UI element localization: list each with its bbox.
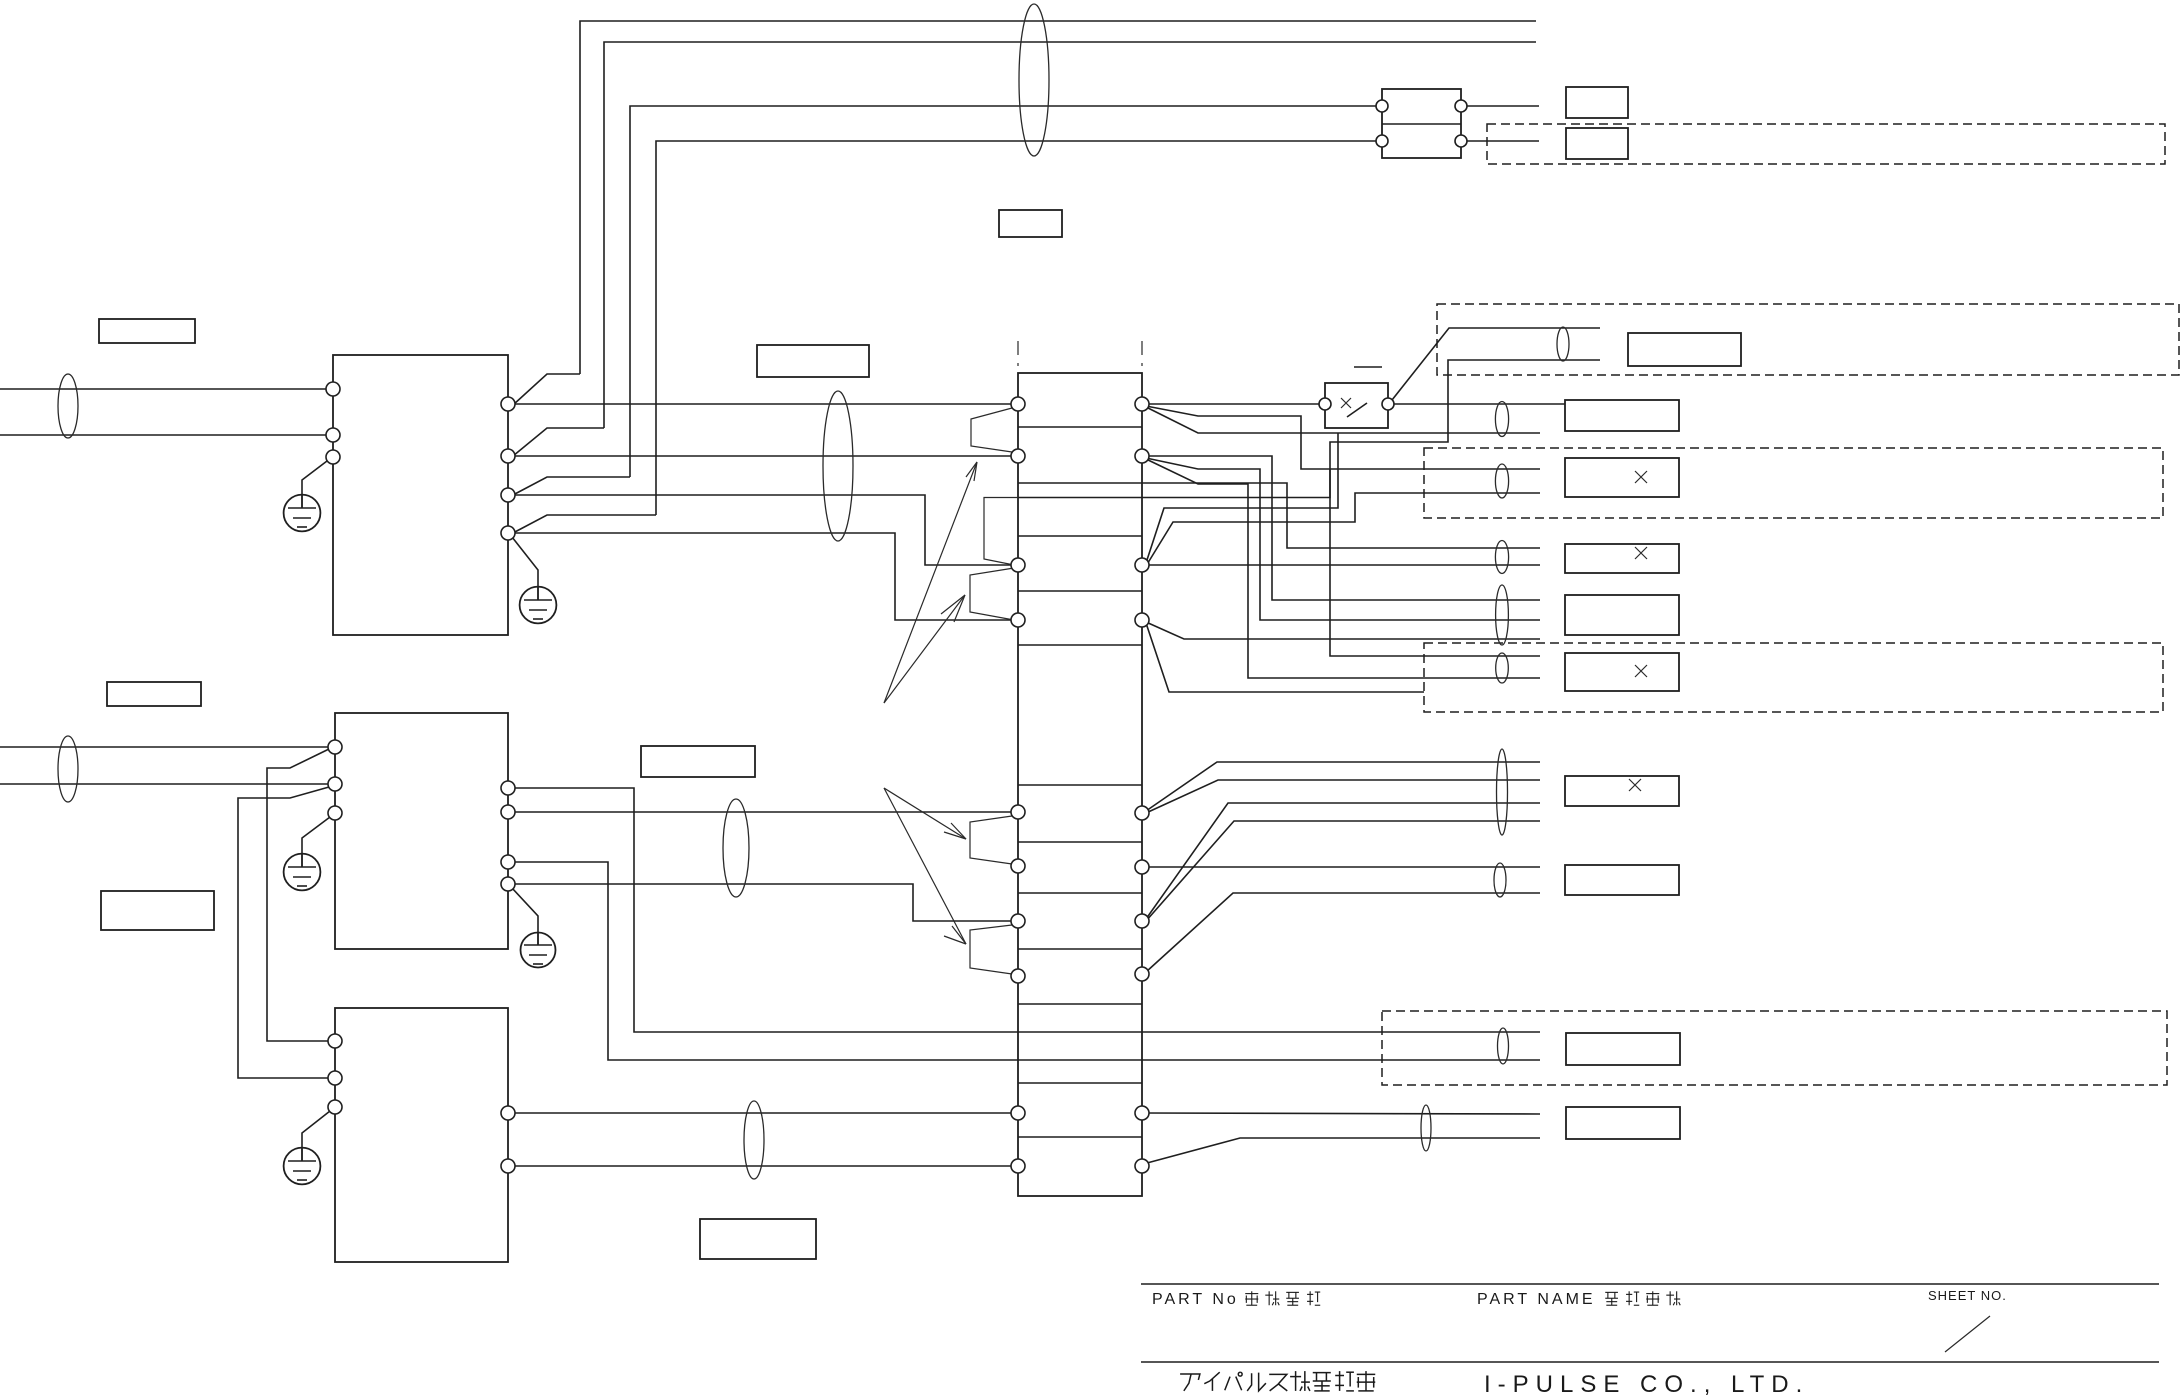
pin TB2-2 xyxy=(1376,135,1388,147)
pin X1-L9 xyxy=(1011,1106,1025,1120)
connector box CR-D2 xyxy=(1628,333,1741,366)
pin X1-R9 xyxy=(1135,1106,1149,1120)
cable ellipse row2 xyxy=(1495,464,1508,498)
wire U2 pin1 down to U3 xyxy=(267,749,335,1041)
strip divider 3 xyxy=(1018,535,1142,537)
cable ellipse CE2 (U1 input) xyxy=(58,374,78,438)
dashed enclosure D2 xyxy=(1437,304,2179,375)
pin TB2-3 xyxy=(1455,100,1467,112)
pin U2-R2 xyxy=(501,805,515,819)
cable ellipse CE6 (U3 output) xyxy=(744,1101,764,1179)
dashed enclosure D8 (row8) xyxy=(1382,1011,2167,1085)
pin X1-L7 xyxy=(1011,914,1025,928)
wire U1 input L2 xyxy=(0,434,333,436)
wire W4 to terminal block TB2 xyxy=(513,141,1382,533)
pin X1-R7 xyxy=(1135,914,1149,928)
pin X1-L5 xyxy=(1011,805,1025,819)
wire row1 top (switch to CR1) xyxy=(1394,403,1565,405)
label box LB5 (mid) xyxy=(641,746,755,777)
pin U2-L3 xyxy=(328,806,342,820)
label box LB4 (mid) xyxy=(757,345,869,377)
pin X1-R1 xyxy=(1135,397,1149,411)
connector box CR5 with x xyxy=(1565,653,1679,691)
pin U2-R4 xyxy=(501,877,515,891)
wire U2-A to row8 (crosses strip) xyxy=(508,788,1540,1032)
cable ellipse row3 xyxy=(1495,541,1508,574)
pin U1-R3 xyxy=(501,488,515,502)
pin X1-L3 xyxy=(1011,558,1025,572)
svg-text:I-PULSE CO., LTD.: I-PULSE CO., LTD. xyxy=(1484,1371,1809,1396)
strip continuation stub left xyxy=(1017,341,1019,366)
strip divider 2 xyxy=(1018,482,1142,484)
pin TB2-4 xyxy=(1455,135,1467,147)
wire U3-R1 to strip xyxy=(508,1112,1018,1114)
ground G4 (U2 pin D) xyxy=(512,888,556,968)
strip divider 11 xyxy=(1018,1082,1142,1084)
strip divider 10 xyxy=(1018,1003,1142,1005)
strip divider 7 xyxy=(1018,841,1142,843)
company text JP xyxy=(1180,1371,1375,1391)
dashed enclosure D5 (row5) xyxy=(1424,643,2163,712)
strip divider 6 xyxy=(1018,784,1142,786)
connector box CR3 with x xyxy=(1565,544,1679,573)
cable ellipse CE1 (top bundle) xyxy=(1019,4,1049,156)
label box LB1 xyxy=(99,319,195,343)
shield bracket SH2b xyxy=(970,568,1014,620)
pin X1-L6 xyxy=(1011,859,1025,873)
pin U2-R3 xyxy=(501,855,515,869)
strip divider 8 xyxy=(1018,892,1142,894)
wire to D2 upper xyxy=(1392,328,1600,400)
ground G1 (U1 left) xyxy=(284,461,327,531)
pin U2-L1 xyxy=(328,740,342,754)
wire fan pin5 to row6 w2 xyxy=(1146,780,1540,813)
pin X1-L2 xyxy=(1011,449,1025,463)
wire fan pin10 to row9 w2 xyxy=(1147,1138,1540,1163)
wire TB2 out 1 xyxy=(1461,105,1539,107)
pin X1-R4 xyxy=(1135,613,1149,627)
pin X1-L8 xyxy=(1011,969,1025,983)
dashed enclosure D1 xyxy=(1487,124,2165,164)
pin U3-R2 xyxy=(501,1159,515,1173)
pin U2-R1 xyxy=(501,781,515,795)
pin X1-R5 xyxy=(1135,806,1149,820)
wire fan pin7 to row6 w3 xyxy=(1146,803,1540,919)
terminal strip X1 xyxy=(1018,373,1142,1196)
switch S1 xyxy=(1319,367,1394,428)
pin X1-R10 xyxy=(1135,1159,1149,1173)
wire U2-B to strip xyxy=(508,811,1018,813)
pin U1-L1 xyxy=(326,382,340,396)
pin U3-L3 xyxy=(328,1100,342,1114)
pin U1-R2 xyxy=(501,449,515,463)
leader arrow A3 xyxy=(884,788,966,839)
wire U2-C to row8 (crosses strip) xyxy=(508,862,1540,1060)
connector box CR7 xyxy=(1565,865,1679,895)
wire U2 input L2 xyxy=(0,783,335,785)
leader arrow A1 xyxy=(884,462,977,703)
ground G5 (U3 left) xyxy=(284,1111,330,1184)
shield bracket SH1 xyxy=(971,408,1012,452)
pin X1-L4 xyxy=(1011,613,1025,627)
label box LB0 (top middle) xyxy=(999,210,1062,237)
block U1 (upper left unit) xyxy=(333,355,508,635)
strip divider 1 xyxy=(1018,426,1142,428)
pin X1-R8 xyxy=(1135,967,1149,981)
cable ellipse row1 xyxy=(1495,402,1508,437)
cable ellipse CE5 (U2 output) xyxy=(723,799,749,897)
wire U1 pin3 to strip xyxy=(508,495,1018,565)
strip continuation stub right xyxy=(1141,341,1143,366)
label box LB6 (bottom mid) xyxy=(700,1219,816,1259)
wire U1 input L1 xyxy=(0,388,333,390)
wire W2 top bundle line 2 xyxy=(513,42,1536,456)
connector box CR4 xyxy=(1565,595,1679,635)
wire pin6 to row7 w1 xyxy=(1142,866,1540,868)
wire TB2 out 2 xyxy=(1461,140,1539,142)
leader arrow A2 xyxy=(884,595,965,703)
wire fan pin2-b to row4 w2 xyxy=(1146,458,1540,620)
block U3 (lower left unit) xyxy=(335,1008,508,1262)
wire through divider to row3 top xyxy=(1142,483,1540,548)
pin X1-R3 xyxy=(1135,558,1149,572)
wire U1 pin2 to strip xyxy=(508,455,1018,457)
title block top rule xyxy=(1141,1283,2159,1285)
shield bracket SH2a xyxy=(984,498,1018,566)
label box LB2 xyxy=(107,682,201,706)
strip divider 4 xyxy=(1018,590,1142,592)
pin TB2-1 xyxy=(1376,100,1388,112)
svg-text:SHEET NO.: SHEET NO. xyxy=(1928,1288,2007,1303)
svg-text:PART No: PART No xyxy=(1152,1291,1239,1308)
wire fan pin4-a to row4 w3 xyxy=(1146,622,1540,639)
pin U3-L1 xyxy=(328,1034,342,1048)
pin X1-R2 xyxy=(1135,449,1149,463)
wire fan pin3-b to row2 bottom xyxy=(1146,493,1540,566)
wire U1 pin4 to strip xyxy=(508,533,1018,620)
wire to D2 lower (through from SH2) xyxy=(1018,360,1600,498)
cable ellipse row4 xyxy=(1496,585,1509,645)
pin U3-L2 xyxy=(328,1071,342,1085)
wire fan pin7 to row6 w4 xyxy=(1146,821,1540,921)
wire pin9 to row9 w1 xyxy=(1142,1113,1540,1114)
wire fan pin4-b to row5 w2 xyxy=(1146,623,1424,692)
strip divider 5 xyxy=(1018,644,1142,646)
wire W3 to terminal block TB2 xyxy=(513,106,1382,495)
wire fan pin5 to row6 w1 xyxy=(1146,762,1540,811)
wire row1 top (strip pin1 to switch) xyxy=(1142,403,1325,405)
cable ellipse row7 xyxy=(1494,863,1506,897)
wire U2 input L1 xyxy=(0,746,335,748)
wire U1 pin1 to strip xyxy=(508,403,1018,405)
pin U1-R4 xyxy=(501,526,515,540)
svg-text:PART NAME: PART NAME xyxy=(1477,1291,1596,1308)
cable ellipse CE3 (U1 output) xyxy=(823,391,853,541)
connector box CR9 xyxy=(1566,1107,1680,1139)
pin X1-L10 xyxy=(1011,1159,1025,1173)
pin U1-L3 xyxy=(326,450,340,464)
connector box CR2 with x xyxy=(1565,458,1679,497)
pin X1-R6 xyxy=(1135,860,1149,874)
shield bracket SH3 xyxy=(970,816,1012,864)
wire U2-D to strip xyxy=(508,884,1018,921)
pin X1-L1 xyxy=(1011,397,1025,411)
pin U3-R1 xyxy=(501,1106,515,1120)
block U2 (middle left unit) xyxy=(335,713,508,949)
terminal block TB2 (top right, 2 rows) xyxy=(1382,89,1461,158)
wire riser pin3-a joins row1 bottom xyxy=(1146,433,1338,563)
wire fan pin1-c row1 bottom xyxy=(1146,407,1540,433)
ground G2 (U1 pin4) xyxy=(512,537,556,623)
wire W1 top bundle line 1 xyxy=(513,21,1536,405)
wire U2 pin2 down to U3 xyxy=(238,787,335,1078)
connector label box CR0b xyxy=(1566,128,1628,159)
cable ellipse CE7 (D2) xyxy=(1557,327,1569,361)
pin U1-R1 xyxy=(501,397,515,411)
pin U2-L2 xyxy=(328,777,342,791)
connector box CR6 with x xyxy=(1565,776,1679,806)
ground G3 (U2 left) xyxy=(284,817,330,890)
cable ellipse row5 xyxy=(1496,653,1509,683)
cable ellipse CE4 (U2 input) xyxy=(58,736,78,802)
leader arrow A4 xyxy=(884,788,966,944)
cable ellipse row6 xyxy=(1497,749,1508,835)
wire fan pin8 to row7 w2 xyxy=(1146,893,1540,972)
strip divider 12 xyxy=(1018,1136,1142,1138)
wire fan pin1-b to row2 top xyxy=(1146,406,1540,469)
strip divider 9 xyxy=(1018,948,1142,950)
pin U1-L2 xyxy=(326,428,340,442)
title block bottom rule xyxy=(1141,1361,2159,1363)
connector box CR1 xyxy=(1565,400,1679,431)
shield bracket SH4 xyxy=(970,925,1012,974)
dashed enclosure D3 (row2) xyxy=(1424,448,2163,518)
label box LB3 xyxy=(101,891,214,930)
connector box CR8 xyxy=(1566,1033,1680,1065)
cable ellipse row8 xyxy=(1498,1028,1509,1064)
wire fan pin2-a to row4 w1 xyxy=(1142,456,1540,600)
wire fan pin2-c to row5 w1 xyxy=(1146,459,1540,678)
sheet slash xyxy=(1945,1316,1990,1352)
wire pin3 to row3 bottom xyxy=(1142,564,1540,566)
wire U3-R2 to strip xyxy=(508,1165,1018,1167)
connector label box CR0a xyxy=(1566,87,1628,118)
cable ellipse row9 xyxy=(1421,1105,1431,1151)
